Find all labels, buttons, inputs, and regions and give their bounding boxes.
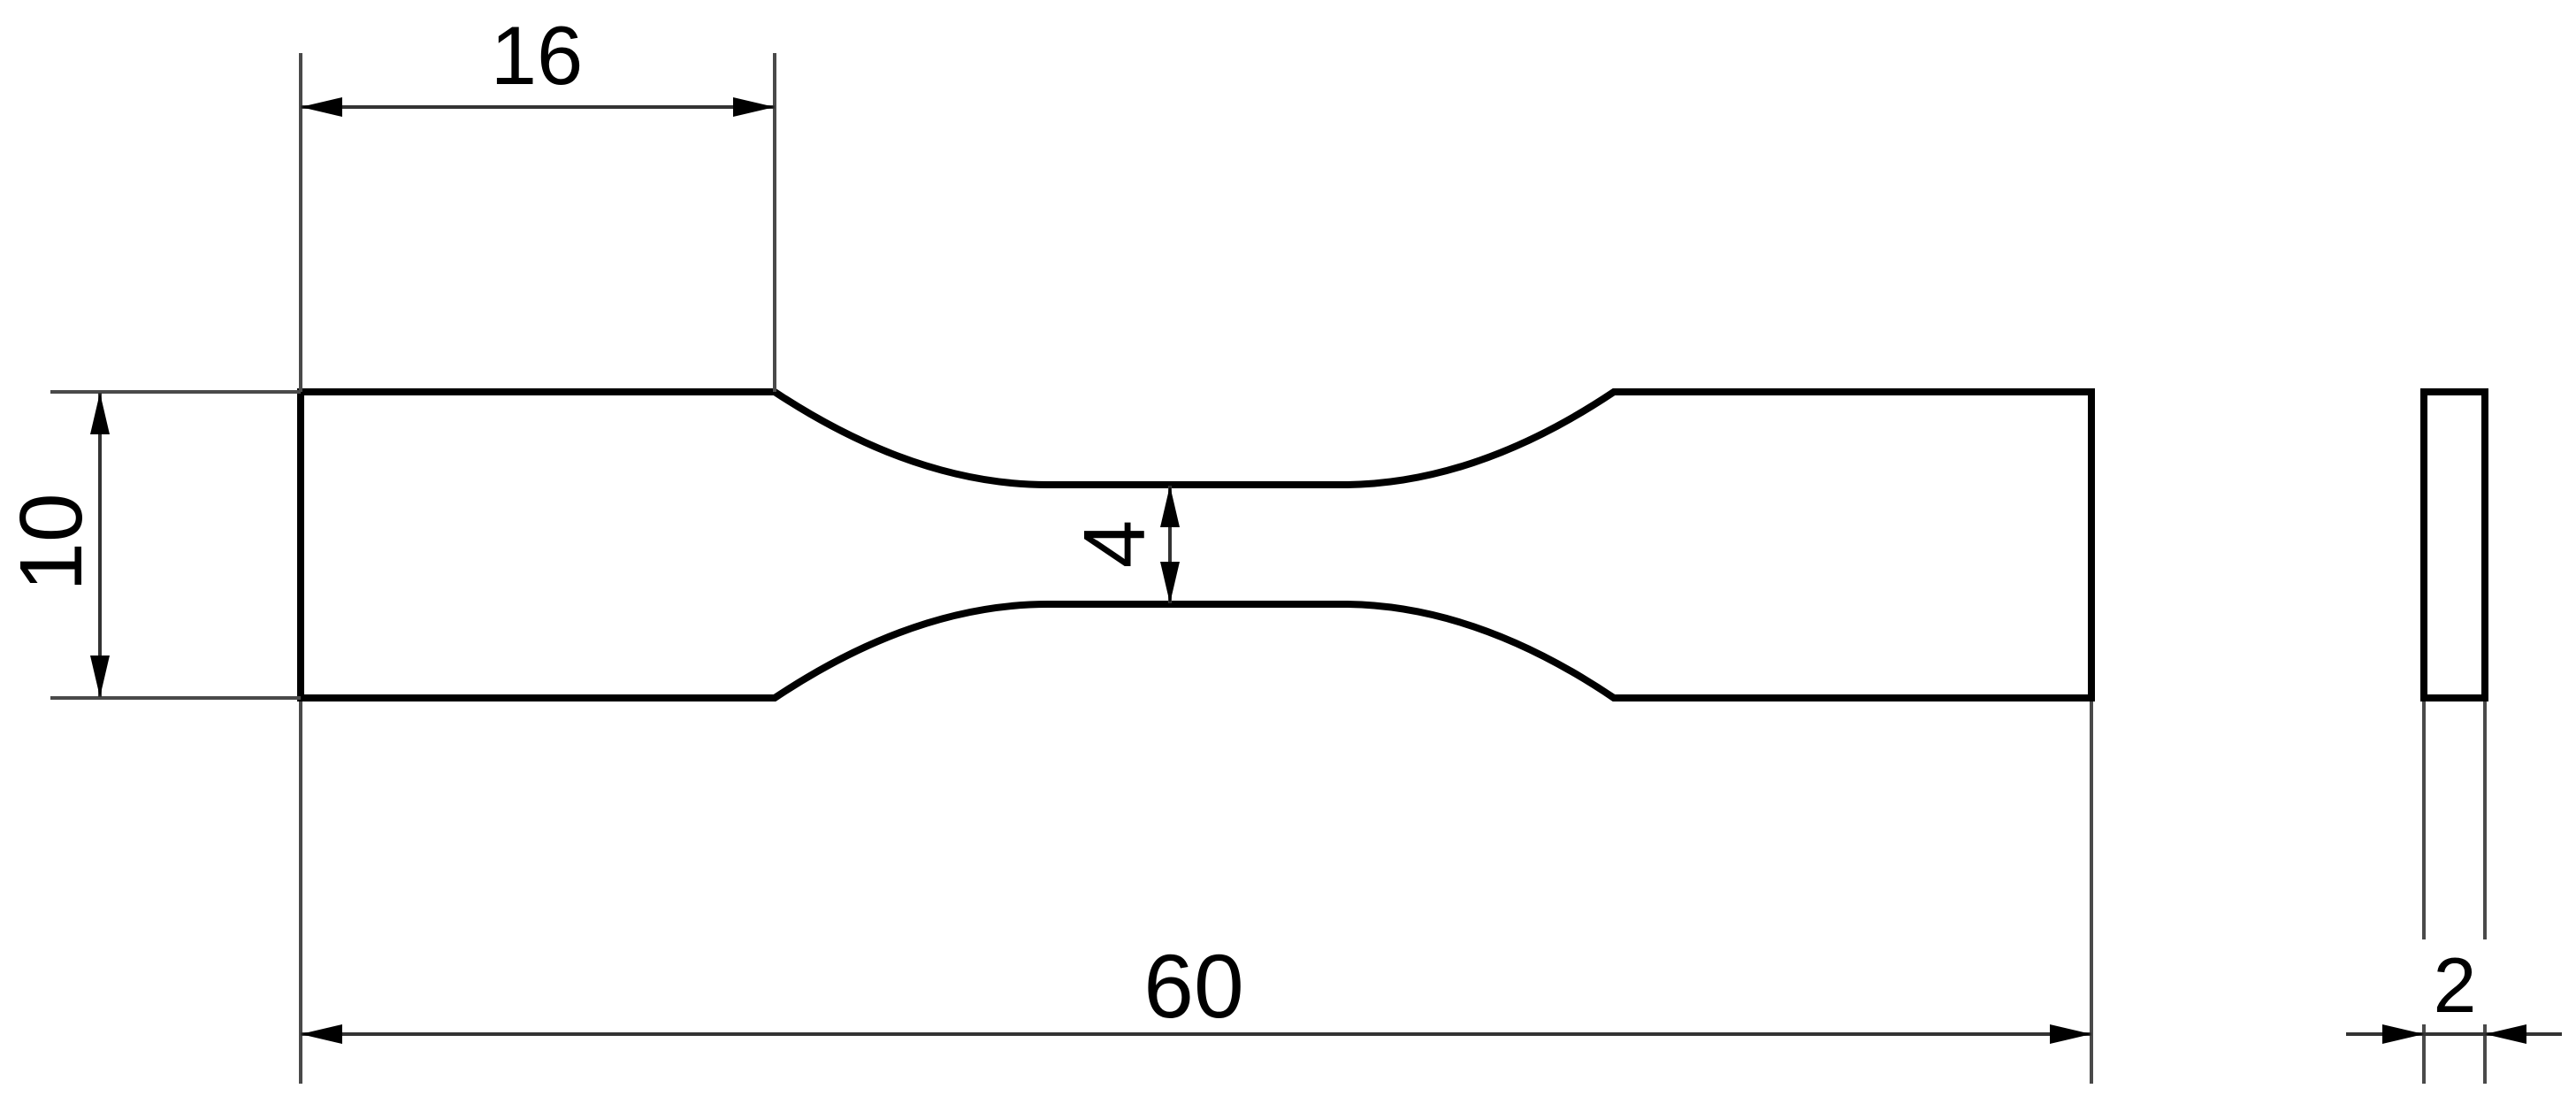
arrow 4 top [1160,486,1180,527]
arrow 60 right [2050,1024,2091,1044]
arrow 16 right [733,97,775,117]
extension line 10 top [50,390,301,394]
svg-text:60: 60 [1143,936,1243,1037]
extension line 16 right [773,53,776,392]
svg-text:10: 10 [2,493,101,591]
dimension line 2 right tail [2485,1032,2562,1036]
svg-text:2: 2 [2434,941,2477,1029]
svg-text:4: 4 [1066,520,1163,569]
arrow 2 right [2485,1024,2526,1044]
specimen side view outline [2424,392,2485,698]
extension line 2 left [2422,701,2426,1084]
arrow 2 left [2382,1024,2424,1044]
extension line 60 left [299,701,302,1084]
specimen front view outline (dogbone) [301,392,2091,698]
label 2 background mask [2416,939,2494,1024]
dimension line 60 [301,1032,2091,1036]
extension line 60 right [2090,701,2093,1084]
extension line 16 left [299,53,302,392]
dimension line 4 [1168,486,1172,603]
extension line 2 right [2483,701,2487,1084]
arrow 4 bottom [1160,562,1180,603]
dimension line 16 [301,105,775,109]
extension line 10 bottom [50,696,301,700]
dimension line 2 middle [2424,1032,2485,1036]
arrow 16 left [301,97,342,117]
arrow 60 left [301,1024,342,1044]
arrow 10 top [90,393,110,434]
dimension line 10 [98,393,102,697]
dimension line 2 left tail [2346,1032,2424,1036]
svg-text:16: 16 [491,9,584,102]
arrow 10 bottom [90,655,110,697]
